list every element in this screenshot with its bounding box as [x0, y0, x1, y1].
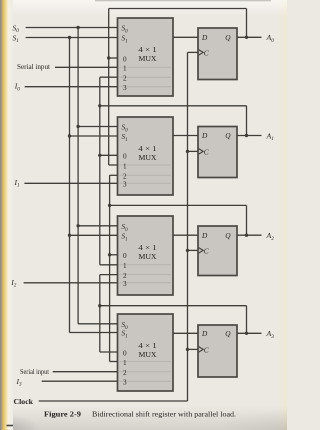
svg-text:1: 1: [123, 65, 127, 73]
svg-text:0: 0: [123, 252, 127, 260]
svg-text:MUX: MUX: [139, 55, 158, 63]
svg-text:0: 0: [123, 153, 127, 161]
svg-text:Serial input: Serial input: [20, 368, 49, 376]
svg-text:A2: A2: [266, 231, 275, 242]
svg-text:Bidirectional shift register w: Bidirectional shift register with parall…: [92, 411, 236, 419]
svg-text:A3: A3: [266, 329, 275, 340]
svg-text:2: 2: [123, 75, 127, 83]
svg-text:0: 0: [123, 55, 127, 63]
svg-text:3: 3: [123, 84, 127, 92]
svg-text:MUX: MUX: [139, 351, 158, 359]
svg-text:Q: Q: [225, 131, 231, 140]
svg-text:3: 3: [123, 280, 127, 288]
svg-text:1: 1: [123, 359, 127, 367]
svg-text:3: 3: [123, 379, 127, 387]
svg-text:2: 2: [123, 173, 127, 181]
svg-text:3: 3: [123, 181, 127, 189]
svg-text:D: D: [201, 33, 208, 42]
svg-text:A0: A0: [266, 33, 275, 44]
svg-text:Q: Q: [225, 33, 231, 42]
svg-text:C: C: [204, 48, 209, 57]
svg-text:2: 2: [123, 369, 127, 377]
svg-text:4 × 1: 4 × 1: [138, 46, 157, 54]
svg-text:MUX: MUX: [139, 253, 158, 261]
svg-text:2: 2: [123, 272, 127, 280]
svg-text:Clock: Clock: [14, 397, 34, 406]
svg-text:4 × 1: 4 × 1: [138, 145, 157, 153]
svg-text:0: 0: [123, 349, 127, 357]
svg-text:1: 1: [123, 262, 127, 270]
svg-text:I3: I3: [16, 377, 23, 388]
svg-text:4 × 1: 4 × 1: [138, 244, 157, 252]
svg-text:4 × 1: 4 × 1: [138, 342, 157, 350]
svg-text:I1: I1: [14, 178, 21, 189]
svg-text:D: D: [201, 329, 208, 338]
svg-text:MUX: MUX: [139, 154, 158, 162]
svg-text:S1: S1: [13, 33, 20, 44]
svg-text:Q: Q: [225, 231, 231, 240]
svg-text:C: C: [204, 345, 209, 354]
svg-text:Serial input: Serial input: [17, 63, 50, 71]
svg-text:C: C: [204, 147, 209, 156]
svg-text:C: C: [204, 246, 209, 255]
svg-text:Figure 2-9: Figure 2-9: [44, 411, 82, 419]
svg-text:D: D: [201, 231, 208, 240]
svg-text:A1: A1: [266, 131, 275, 142]
svg-text:I2: I2: [10, 278, 16, 289]
svg-text:D: D: [201, 131, 208, 140]
svg-text:Q: Q: [225, 329, 231, 338]
svg-text:I0: I0: [14, 82, 20, 93]
svg-text:1: 1: [123, 162, 127, 170]
